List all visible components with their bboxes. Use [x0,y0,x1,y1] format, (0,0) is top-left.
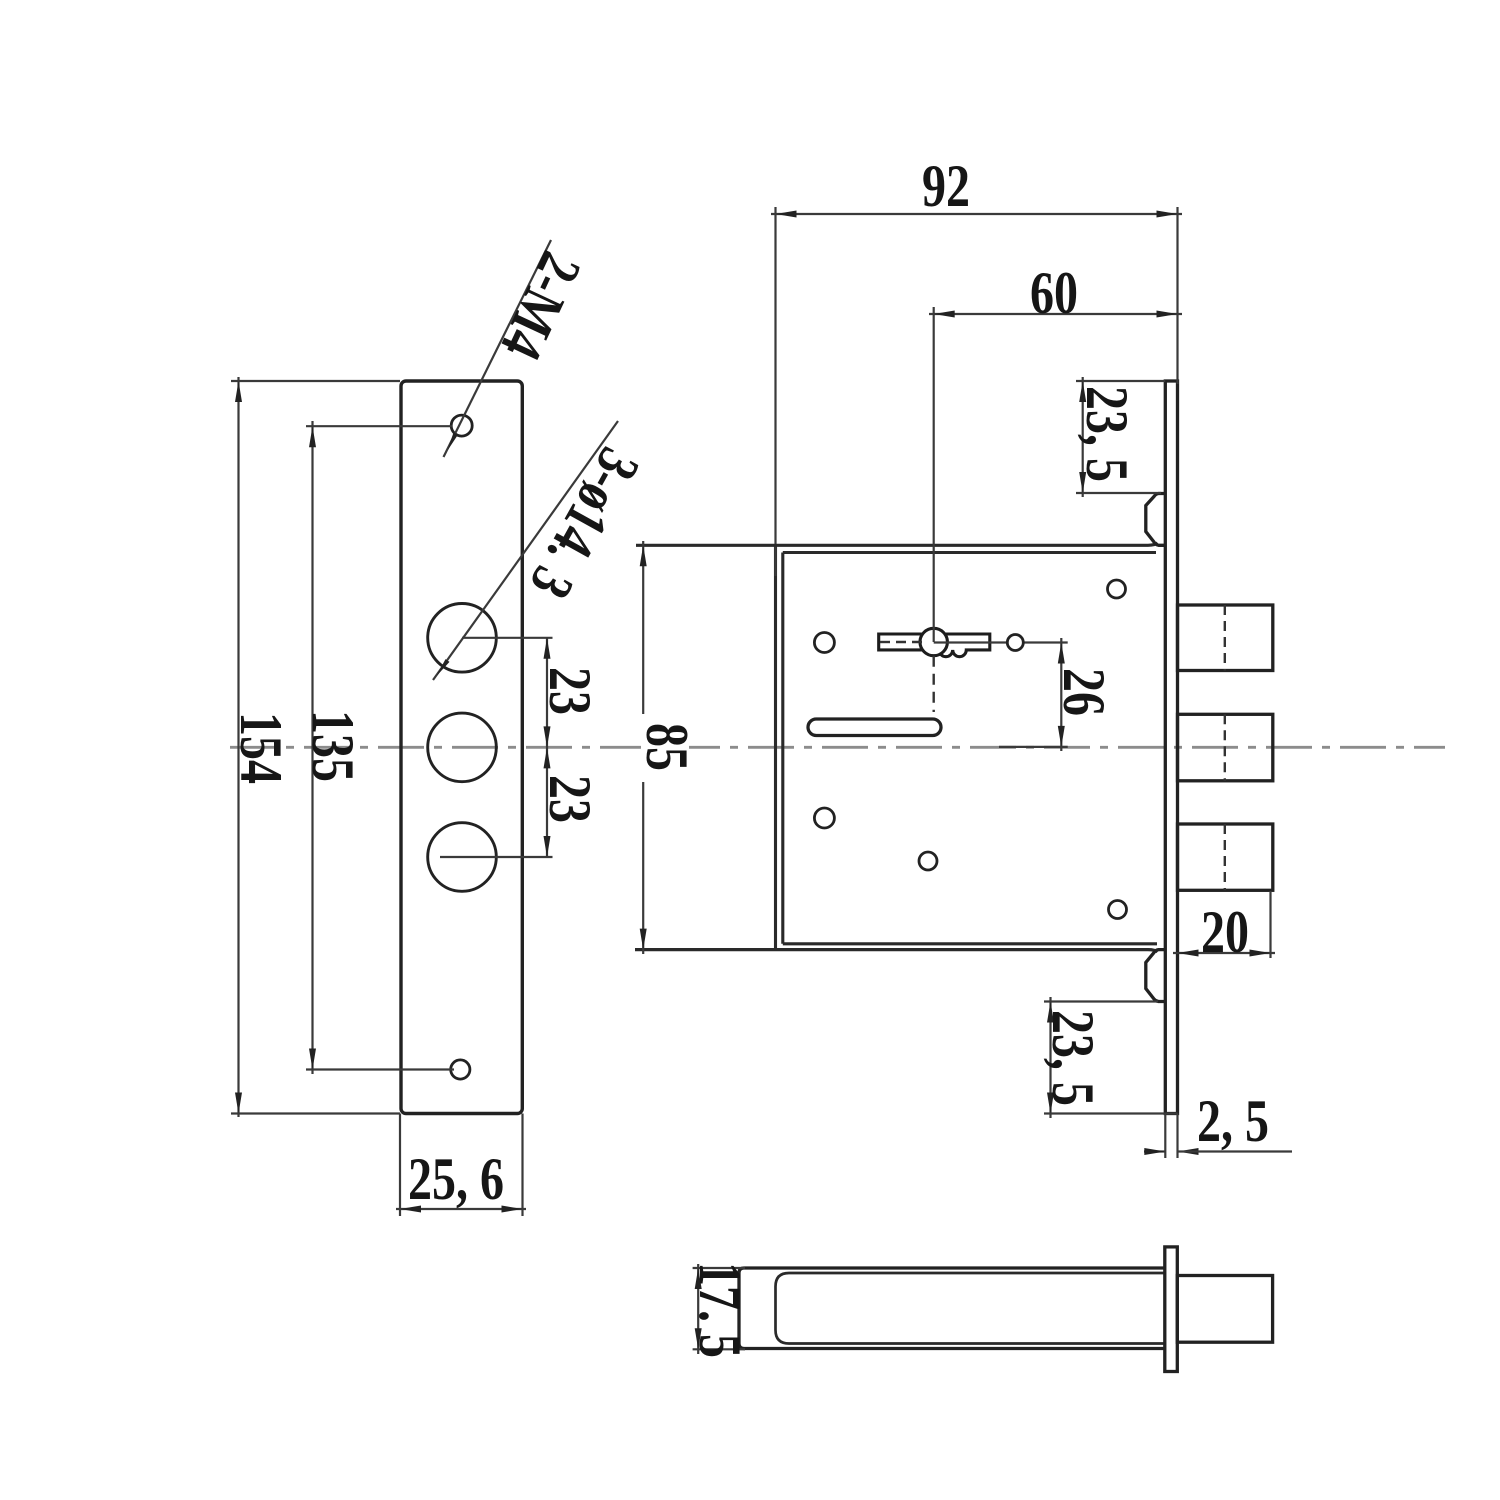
top latch tab [1146,494,1166,546]
dim 23,5 bottom extension lower [1044,1112,1178,1114]
dim 23 arrow top [544,638,551,659]
svg-text:26: 26 [1051,668,1117,716]
dim 23,5 bottom extension upper (tab bottom) [1044,1000,1158,1002]
dim 25,6 arrow left [400,1206,421,1213]
svg-text:25, 6: 25, 6 [408,1146,504,1212]
bottom view cavity [776,1273,1165,1344]
dim 23 line [546,638,548,857]
dim 92 line [771,213,1182,215]
dim 23 arrows middle [544,726,551,747]
svg-text:85: 85 [634,723,700,771]
case screw hole lower-right [1109,901,1127,919]
deadbolt 1 [1178,605,1273,671]
dim 23,5 top arrow down [1079,472,1086,493]
dim 20 arrow right [1250,950,1271,957]
leader 2-M4 arrow [448,432,459,450]
dim 23,5 top line [1082,377,1084,497]
dim 60 arrow left [934,311,955,318]
case inner bottom edge [783,942,1157,945]
case screw hole lower-middle [919,852,937,870]
front plate outline [401,381,522,1114]
cylinder hole 2 [428,713,497,782]
dim 154 extension bottom [231,1112,400,1114]
dim 60 line [929,313,1182,315]
dim 23,5 bottom line [1049,997,1051,1118]
dim 135 arrow top [309,426,316,447]
screw hole bottom M4 [451,1060,470,1079]
92 extension over left wall [774,207,776,576]
svg-text:135: 135 [300,710,366,782]
key bit bar [879,634,990,657]
deadbolt 1 dashed axis [1224,605,1226,671]
dim 154 arrow top [235,381,242,402]
svg-text:23, 5: 23, 5 [1074,386,1140,482]
faceplate side view [1165,381,1177,1114]
dim 17,5 arrow down [695,1328,702,1349]
dim 92 arrow right [1157,211,1178,218]
dim 135 arrow bottom [309,1049,316,1070]
svg-text:92: 92 [922,153,970,219]
case outer bottom edge (also 85 extension) [635,950,1158,952]
dim 23,5 top extension upper [1076,380,1165,382]
deadbolt 2 dashed axis [1224,714,1226,781]
faceplate edge extension above (92/60 dims) [1176,207,1178,384]
dim 20 right extension [1269,891,1271,958]
26 extension line through small hole [934,641,1068,643]
svg-text:17. 5: 17. 5 [687,1262,753,1358]
deadbolt 3 dashed axis [1224,824,1226,890]
svg-text:23: 23 [537,667,603,715]
dim 85 arrow down [640,929,647,950]
dim 85 line [642,541,644,954]
dim 2,5 line left part [1144,1150,1165,1152]
dim 17,5 arrow up [695,1268,702,1289]
screw hole top M4 [451,415,472,436]
dim 92 arrow left [776,211,797,218]
dim 135 extension bottom [306,1068,454,1070]
leader 3-o14.3 line [433,421,618,680]
dim 23,5 top arrow up [1079,381,1086,402]
dim 154 arrow bottom [235,1093,242,1114]
cylinder hole 3 [428,823,497,892]
horizontal center line [230,746,1445,749]
dim 26 arrow down [1058,726,1065,747]
dim 26 line [1060,638,1062,751]
bottom view case outer [739,1268,1165,1349]
dim 17,5 line [697,1264,699,1354]
leader 2-M4 line [444,240,552,457]
dim 25,6 extension left [399,1114,401,1217]
case screw hole upper-left [814,633,834,653]
dim 26 extension bottom [999,746,1068,748]
cylinder hole 1 [428,604,497,673]
dim 23 upper extension (from hole1 center) [462,637,553,639]
case screw hole lower-left [814,808,834,828]
dim 60 arrow right [1157,311,1178,318]
dim 2,5 arrow left [1144,1148,1165,1155]
dim 23,5 bottom arrow up [1047,1002,1054,1023]
svg-text:23, 5: 23, 5 [1040,1010,1106,1106]
case inner top edge [783,551,1156,554]
case outer top edge (also 85 extension) [636,543,1158,546]
dim 20 line [1173,952,1275,954]
key center boss circle [920,628,947,655]
case inner left wall [781,553,784,944]
svg-text:2, 5: 2, 5 [1197,1088,1269,1154]
dim 17,5 extension bottom [693,1348,745,1350]
key slot (rounded) [808,719,941,736]
dim 23 arrow bottom [544,836,551,857]
case outer left wall [774,545,777,949]
dim 2,5 arrow right [1178,1148,1199,1155]
svg-text:154: 154 [228,712,294,784]
bottom view bolt [1177,1276,1272,1343]
dim 154 extension top [231,380,400,382]
60 extension vertical into key center [933,307,935,642]
dashed drop line below key [933,656,935,712]
dim 135 line [311,421,313,1074]
dim 25,6 line [396,1208,526,1210]
dim 85 text backing [641,714,689,782]
dim 20 arrow left [1178,950,1199,957]
dim 25,6 arrow right [502,1206,523,1213]
dim 85 arrow up [640,545,647,566]
svg-text:23: 23 [537,775,603,823]
bottom view faceplate bar [1165,1247,1178,1372]
bottom latch tab [1146,950,1166,1002]
dim 2,5 line right part with leader [1178,1150,1293,1152]
dim 25,6 extension right [521,1114,523,1217]
faceplate edge extensions below (2,5 dim) [1164,1114,1166,1159]
leader 3-o14.3 arrow [437,659,450,676]
case screw hole upper-right [1108,580,1126,598]
dim 154 line [237,377,239,1117]
dim 23,5 bottom arrow down [1047,1093,1054,1114]
dim 26 arrow up [1058,643,1065,664]
dim 135 extension top [306,425,452,427]
dim 17,5 extension top [693,1267,745,1269]
small pin hole [1007,635,1023,651]
dim 23 lower extension (from hole3 center) [440,856,553,858]
deadbolt 3 [1178,824,1273,890]
deadbolt 2 [1178,714,1273,781]
key bar dashed centerline [880,641,928,643]
dim 23,5 top extension lower [1076,492,1161,494]
svg-text:20: 20 [1201,899,1249,965]
svg-text:60: 60 [1030,260,1078,326]
